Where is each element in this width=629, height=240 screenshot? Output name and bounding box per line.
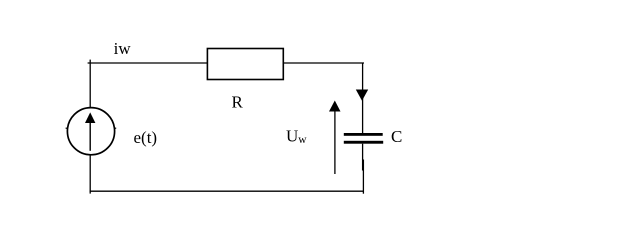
svg-text:Uw: Uw [286, 127, 307, 146]
svg-text:R: R [232, 93, 244, 112]
wire right vertical to bottom [362, 160, 364, 194]
node top-left junction overshoot [89, 60, 91, 63]
svg-text:e(t): e(t) [134, 128, 158, 147]
wire right vertical below capacitor [362, 144, 364, 171]
source e(t) [66, 108, 117, 155]
wire left vertical upper [89, 63, 91, 108]
current arrow into capacitor [356, 90, 368, 101]
svg-text:C: C [391, 127, 402, 146]
voltage arrow Uw [329, 101, 341, 175]
wire left vertical lower [89, 155, 91, 194]
resistor R [207, 49, 283, 80]
wire right vertical upper [362, 63, 364, 134]
capacitor C [344, 133, 383, 144]
svg-text:iw: iw [114, 39, 132, 58]
wire top horizontal left segment [88, 62, 208, 64]
wire bottom horizontal [90, 190, 364, 192]
wire top horizontal right segment [283, 62, 364, 64]
